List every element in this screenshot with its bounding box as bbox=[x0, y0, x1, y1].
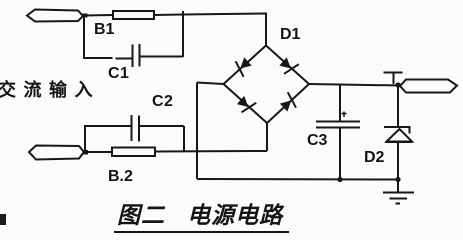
wire top rail from J1 to B1 bbox=[83, 14, 113, 17]
wire DC+ rail from bridge right vertex to output bbox=[309, 84, 400, 86]
wire C1 loop bottom-left bbox=[83, 57, 113, 59]
ground bbox=[383, 193, 414, 204]
diode D1d (bottom-right arm) bbox=[278, 92, 299, 114]
zener diode D2 bbox=[384, 127, 410, 134]
wire bottom rail from J2 to B2 bbox=[84, 151, 112, 153]
diode D1b (top-right arm) bbox=[277, 55, 298, 77]
capacitor C2 bbox=[132, 115, 140, 142]
node D (junction D2/top rail) bbox=[395, 82, 400, 87]
wire C2 loop top-left bbox=[84, 125, 132, 127]
wire DC- bottom rail bbox=[197, 178, 398, 181]
terminal J1 (top AC input lug) bbox=[27, 10, 83, 22]
wire D2 bottom lead bbox=[397, 142, 399, 180]
wire C1 loop right vertical bbox=[182, 11, 184, 57]
diode bridge D1: edge bottom-right bbox=[267, 84, 309, 123]
label D2 bbox=[364, 149, 384, 167]
wire C3 top lead bbox=[339, 85, 341, 122]
wire DC- vertical bbox=[196, 83, 198, 180]
wire bridge top vertical bbox=[265, 14, 267, 47]
resistor B1 bbox=[113, 11, 154, 19]
terminal J3 (DC output lug) bbox=[400, 80, 457, 93]
capacitor C3 (electrolytic) bbox=[316, 122, 360, 128]
label C1 bbox=[108, 65, 129, 83]
wire bbox=[116, 58, 133, 60]
caption 图二 电源电路 bbox=[114, 196, 289, 233]
label AC input 交流输入 bbox=[0, 76, 100, 102]
label B1 bbox=[94, 21, 114, 39]
polarity mark + of C3 bbox=[342, 112, 347, 118]
node C (junction C3/bottom rail) bbox=[337, 177, 342, 182]
label D1 bbox=[280, 26, 300, 44]
node A (junction top-left) bbox=[83, 14, 88, 18]
wire D2 top lead bbox=[397, 85, 399, 127]
terminal J2 (bottom AC input lug) bbox=[29, 146, 84, 160]
label C2 bbox=[152, 93, 173, 111]
label B2 bbox=[108, 168, 133, 186]
diode bridge D1: edge bottom-left bbox=[224, 84, 268, 123]
node E (junction D2/bottom rail) bbox=[395, 177, 400, 182]
wire bridge bottom vertical bbox=[266, 123, 268, 151]
diode D1c (bottom-left arm) bbox=[235, 94, 256, 116]
wire top rail from B1 to bridge top bbox=[154, 14, 267, 16]
wire C3 bottom lead bbox=[339, 128, 341, 180]
wire bottom rail from B2 to bridge bottom bbox=[155, 150, 267, 153]
node B (junction bottom-left) bbox=[83, 150, 88, 155]
diode bridge D1: edge top-left bbox=[224, 46, 267, 85]
polarity mark + of output bbox=[384, 73, 403, 85]
wire ground lead bbox=[397, 180, 399, 193]
capacitor C1 bbox=[133, 44, 140, 67]
wire C1 loop left vertical bbox=[83, 16, 85, 58]
label C3 bbox=[307, 132, 327, 150]
diode D1a (top-left arm) bbox=[232, 55, 253, 77]
wire DC- from bridge left vertex bbox=[197, 83, 224, 85]
wire C1 loop bottom-right bbox=[140, 56, 183, 58]
wire C2 loop top-right bbox=[140, 125, 185, 127]
wire C2 loop left vertical bbox=[84, 126, 86, 152]
resistor B2 bbox=[112, 148, 155, 157]
wire C2 loop right vertical bbox=[183, 126, 185, 151]
edge artifact mark bbox=[0, 214, 6, 225]
diode bridge D1: edge top-right bbox=[266, 46, 309, 85]
